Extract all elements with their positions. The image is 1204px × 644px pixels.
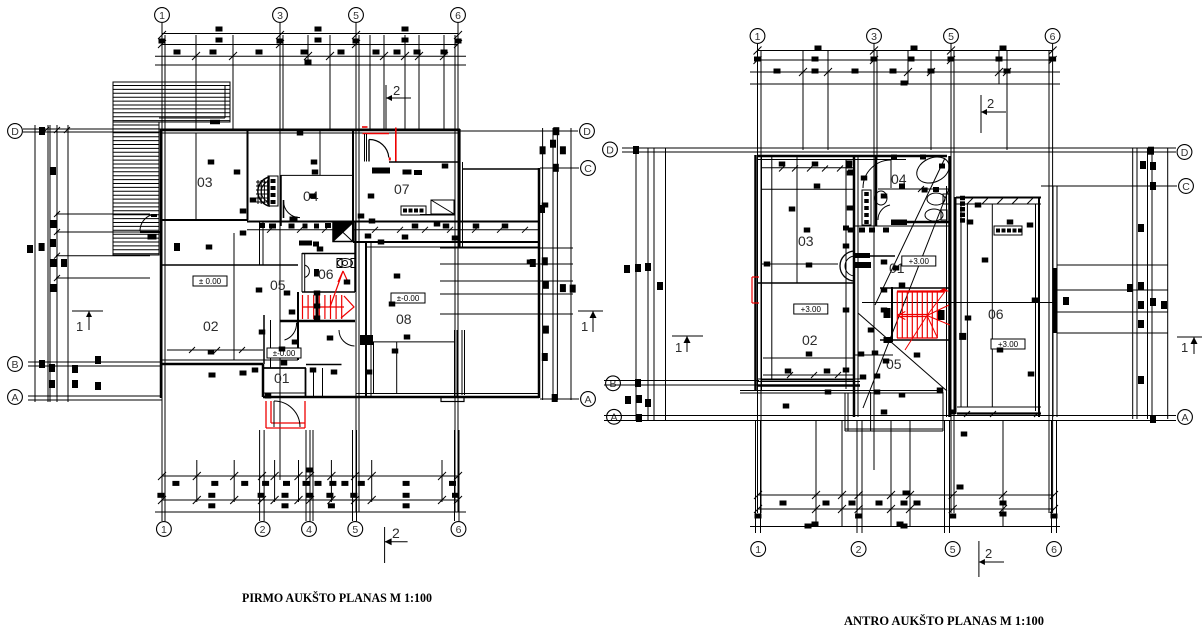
left plan: room05 left region lines — [161, 264, 298, 266]
svg-text:05: 05 — [886, 356, 902, 372]
left plan: bottom axis circle 6 — [451, 522, 466, 537]
left plan: red stairs — [303, 271, 355, 319]
left plan: top axis circle 1 — [155, 8, 170, 23]
svg-text:2: 2 — [856, 544, 862, 556]
svg-text:6: 6 — [456, 524, 462, 536]
right plan: bottom axis circle 6 — [1047, 542, 1062, 557]
left plan: vestibule wall — [389, 161, 459, 163]
left plan: vertical axis line 3 — [279, 23, 281, 480]
left plan: outer wall left — [160, 129, 163, 398]
right plan: right band vertical lines — [1132, 148, 1134, 419]
svg-text:B: B — [11, 359, 18, 371]
svg-text:4: 4 — [306, 524, 312, 536]
right plan: diagonal 3 — [858, 313, 947, 391]
svg-text:2: 2 — [392, 525, 400, 541]
right plan: vertical axis line 6 — [1052, 44, 1054, 513]
right plan: door jamb blocks — [854, 253, 870, 258]
left plan: hall-08 door blocks — [360, 335, 373, 345]
right plan: top axis circle 6 — [1045, 29, 1060, 44]
left plan: kitchen unit room07 — [401, 206, 426, 215]
left plan: left band horizontal dim lines — [56, 213, 150, 215]
left plan: wall room04/07 — [352, 130, 354, 242]
right plan: room03 top band ticks — [779, 166, 785, 172]
right plan: axis circle D left — [603, 142, 618, 157]
right plan: top dimension band lines — [757, 50, 1053, 52]
left plan: axis C line + circle — [540, 167, 579, 169]
right plan: stairs box bottom wall — [880, 339, 950, 341]
left plan: room08 inner verticals — [454, 330, 456, 397]
right plan: bottom band verticals — [755, 421, 757, 533]
left plan: door arc hall-08 — [339, 330, 355, 346]
svg-text:1: 1 — [755, 544, 761, 556]
left plan: room02 dim line — [167, 349, 263, 351]
left plan: red door opening top — [362, 126, 368, 128]
left plan: hall bottom wall — [306, 364, 342, 366]
svg-text:1: 1 — [755, 31, 761, 43]
svg-text:2: 2 — [987, 96, 994, 111]
left plan: canopy hatch wide part — [113, 82, 230, 122]
left plan: bottom axis circle 2 — [255, 522, 270, 537]
left plan: room07 inner wall bottom — [353, 241, 540, 243]
left plan: elevation box 2 — [391, 293, 425, 303]
svg-text:02: 02 — [203, 318, 219, 334]
svg-text:ANTRO AUKŠTO PLANAS M 1:100: ANTRO AUKŠTO PLANAS M 1:100 — [844, 613, 1044, 628]
right plan: axis B line — [604, 380, 759, 382]
left plan: right dimension band vertical lines — [542, 128, 544, 400]
svg-text:1: 1 — [1181, 340, 1188, 355]
left plan: outer wall C segment — [462, 168, 540, 170]
left plan: top dimension band lines — [162, 33, 458, 35]
svg-text:+3.00: +3.00 — [909, 257, 930, 266]
right plan: top band squares — [815, 46, 822, 51]
right plan: inner block lines left — [762, 167, 854, 169]
svg-text:07: 07 — [394, 181, 410, 197]
left plan: room08 left wall — [365, 242, 367, 397]
left plan: fireplace half circle — [258, 177, 269, 206]
svg-text:+3.00: +3.00 — [801, 305, 822, 314]
left plan: top band section squares — [216, 27, 223, 32]
left plan: vertical axis line 6 — [457, 23, 459, 512]
svg-text:01: 01 — [274, 370, 290, 386]
svg-text:D: D — [583, 126, 591, 138]
left plan: bottom axis circle 1 — [157, 522, 172, 537]
svg-text:6: 6 — [455, 10, 461, 22]
svg-text:06: 06 — [988, 306, 1004, 322]
svg-text:3: 3 — [277, 10, 283, 22]
right plan: bath tub — [913, 152, 954, 188]
right plan: bottom band squares — [780, 501, 787, 506]
left plan: entry sill blocks — [372, 168, 390, 174]
left plan: corridor second line — [247, 229, 540, 231]
right plan: room02 bottom dim lines — [763, 357, 855, 359]
right plan: room03 dim line — [762, 263, 838, 265]
right plan: stairs mid landing line — [862, 302, 1057, 304]
left plan: vertical axis line 1 — [161, 23, 163, 512]
svg-text:D: D — [606, 144, 614, 156]
left plan: bottom dimension band — [162, 475, 458, 477]
left plan: terrace door — [151, 214, 157, 217]
svg-text:03: 03 — [197, 174, 213, 190]
right plan: elevation box 1 — [902, 256, 936, 266]
right plan: wing 06 top ticks — [967, 198, 973, 204]
svg-text:1: 1 — [159, 10, 165, 22]
right plan: axis C line right — [1041, 185, 1177, 187]
left plan: bottom axis circle 4 — [302, 522, 317, 537]
svg-text:B: B — [609, 378, 616, 390]
svg-text:A: A — [11, 392, 18, 404]
left plan: section mark 2 bottom — [384, 527, 386, 563]
left plan: room07 lower wall — [420, 214, 455, 216]
left plan: secondary vertical grid lines — [195, 35, 197, 130]
right plan: wing 06 inner verticals — [991, 204, 993, 407]
svg-text:D: D — [11, 126, 19, 138]
left plan: black entry door — [364, 134, 366, 162]
right plan: inner vertical room03 — [845, 160, 847, 389]
left plan: axis D line right + circle — [460, 130, 578, 132]
svg-text:2: 2 — [393, 83, 400, 98]
svg-text:1: 1 — [76, 319, 83, 334]
left plan: outer wall top-right segment — [458, 129, 460, 247]
left plan: canopy hatch narrow part — [113, 122, 159, 255]
right plan: top band ticks — [799, 68, 807, 76]
left plan: wall x281 — [280, 175, 282, 226]
left plan: canopy square mark — [210, 120, 220, 125]
svg-text:6: 6 — [1051, 544, 1057, 556]
right plan: axis circle A right — [1178, 410, 1193, 425]
left plan: room08 inner lines — [370, 242, 372, 397]
left plan: A wall inner line — [356, 393, 539, 395]
left plan: outer wall right — [538, 168, 541, 398]
svg-text:1: 1 — [675, 340, 682, 355]
right plan: right band dim lines — [1057, 264, 1168, 266]
right plan: porch inner vertical — [870, 392, 872, 431]
left plan: bottom band verticals — [161, 430, 163, 521]
right plan: toilet 1 — [927, 193, 945, 205]
svg-text:C: C — [584, 163, 592, 175]
svg-text:5: 5 — [352, 524, 358, 536]
left plan: A wall step — [441, 397, 464, 402]
left plan: wc fixtures — [305, 265, 310, 278]
left plan: square near terrace door — [148, 235, 157, 240]
right plan: axis circle B left — [606, 376, 621, 391]
right plan: bathroom squares — [899, 184, 905, 189]
right plan: section mark 2 top — [980, 95, 982, 133]
svg-text:02: 02 — [802, 332, 818, 348]
left plan: corridor dim ticks — [267, 227, 273, 233]
left plan: axis circle B left — [8, 357, 23, 372]
right plan: top axis circle 3 — [867, 29, 882, 44]
svg-text:08: 08 — [396, 311, 412, 327]
left plan: stairs box walls — [280, 320, 355, 323]
right plan: bottom axis circle 1 — [751, 542, 766, 557]
right plan: red balcony door left — [752, 276, 759, 278]
left plan: vertical axis line 5 — [355, 23, 357, 512]
right plan: door arc mid — [878, 205, 890, 220]
left plan: shaft diamond — [333, 223, 353, 242]
left plan: wall room04 left — [319, 130, 321, 175]
right plan: top axis circle 1 — [750, 29, 765, 44]
right plan: red stairs — [897, 288, 950, 350]
right plan: axis A line — [604, 415, 1176, 417]
right plan: axis circle D right — [1177, 145, 1192, 160]
left plan: wall room03 right — [247, 130, 249, 220]
left plan: bottom band ticks — [158, 472, 166, 480]
left plan: section mark 1 right — [578, 310, 603, 312]
left plan: door arc stairs-01 — [285, 323, 297, 340]
left plan: outer wall step — [262, 364, 265, 397]
right plan: wing06 shelf column — [960, 196, 965, 201]
right plan: room05 wall — [891, 287, 893, 342]
left plan: outer wall bottom A segment — [263, 396, 539, 399]
left plan: wall above porch — [264, 392, 306, 394]
left plan: fireplace column squares — [268, 176, 278, 206]
right plan: interior squares — [779, 162, 786, 167]
svg-text:2: 2 — [260, 524, 266, 536]
left plan: red porch — [266, 401, 305, 428]
right plan: bathroom door sill — [891, 220, 907, 226]
right plan: bottom dimension band — [758, 494, 1054, 496]
right plan: kitchen unit — [994, 226, 1022, 235]
svg-text:±-0.00: ±-0.00 — [397, 294, 420, 303]
left plan: section mark 1 left — [72, 310, 103, 312]
left plan: bottom band squares — [172, 481, 179, 486]
right plan: wing 06 left wall — [955, 197, 957, 414]
right plan: elevation box 2 — [794, 304, 828, 314]
left plan: axis circle A left — [8, 390, 23, 405]
right plan: toilet 2 — [925, 209, 943, 221]
right plan: wing 06 bottom wall — [957, 406, 1041, 408]
right plan: section mark 1 left — [672, 335, 703, 337]
left plan: right band dim lines — [440, 247, 573, 249]
right plan: section mark 1 right — [1177, 336, 1202, 338]
left plan: door sill 06 — [299, 241, 312, 246]
left plan: top axis circle 6 — [451, 8, 466, 23]
right plan: axis circle A left — [607, 409, 622, 424]
left plan: elevation box 1 — [193, 276, 227, 286]
right plan: secondary vertical grid lines top — [802, 50, 804, 150]
left plan: axis A right circle — [540, 398, 579, 400]
left plan: outer wall top — [160, 129, 460, 132]
right plan: wing 06 right wall — [1038, 197, 1040, 417]
left plan: elevation box 3 — [267, 348, 301, 358]
right plan: bathroom dim line — [878, 188, 950, 190]
left plan: room06 box — [301, 253, 303, 292]
svg-text:± 0.00: ± 0.00 — [199, 277, 222, 286]
left plan: room07 corner door — [431, 200, 454, 214]
left plan: axis circle D left — [8, 124, 23, 139]
svg-text:A: A — [610, 412, 617, 424]
left plan: corridor door frame — [259, 222, 261, 266]
right plan: balcony wall thick — [1054, 268, 1058, 333]
right plan: bathroom left wall — [875, 156, 878, 226]
left plan: bottom axis circle 5 — [348, 522, 363, 537]
right plan: room01 mid wall — [854, 255, 895, 257]
left plan: right band squares — [550, 140, 556, 148]
left plan: canopy inner edge lines — [224, 85, 226, 118]
right plan: vertical axis line 1 — [757, 44, 759, 513]
left plan: outer wall bottom B segment — [160, 363, 263, 366]
svg-text:2: 2 — [985, 546, 992, 561]
left plan: left band squares — [39, 127, 45, 135]
left plan: wall room03 bottom — [161, 219, 248, 221]
right plan: stairs box top wall — [880, 287, 950, 289]
left plan: room04 dim line — [281, 174, 352, 176]
right plan: elevation box 3 — [991, 339, 1025, 349]
right plan: balcony edge verticals — [1052, 186, 1054, 417]
right plan: bottom axis circle 5 — [945, 542, 960, 557]
right plan: axis circle C right — [1179, 179, 1194, 194]
right plan: diagonal section line — [863, 186, 950, 408]
right plan: bottom band ticks — [754, 491, 762, 499]
svg-text:6: 6 — [1050, 31, 1056, 43]
right plan: sink — [875, 191, 887, 205]
right plan: bottom axis circle 2 — [851, 542, 866, 557]
left plan: interior squares — [208, 160, 215, 165]
left plan: axis D line — [23, 128, 460, 130]
left plan: room01 walls — [263, 315, 265, 364]
right plan: vertical axis line 5 — [950, 44, 952, 513]
left plan: axis A line left — [28, 395, 162, 397]
right plan: outer wall left — [754, 155, 757, 390]
right plan: shower semicircle — [840, 251, 855, 281]
svg-text:1: 1 — [581, 319, 588, 334]
right plan: left band vertical lines — [635, 148, 637, 421]
svg-text:1: 1 — [161, 524, 167, 536]
right plan: middle column right wall — [948, 156, 951, 417]
svg-text:C: C — [1182, 181, 1190, 193]
left plan: porch door arc — [274, 401, 300, 427]
right plan: right band squares — [1148, 147, 1154, 155]
svg-text:PIRMO AUKŠTO PLANAS M 1:100: PIRMO AUKŠTO PLANAS M 1:100 — [242, 590, 432, 605]
left plan: corridor door blobs — [259, 223, 265, 228]
svg-text:3: 3 — [871, 31, 877, 43]
left plan: axis B line — [28, 361, 162, 363]
svg-text:5: 5 — [353, 10, 359, 22]
left plan: left dimension band vertical lines — [34, 125, 36, 402]
right plan: section mark 2 bottom — [978, 541, 980, 577]
svg-text:03: 03 — [798, 233, 814, 249]
left plan: section mark 2 top — [385, 85, 387, 129]
left plan: top band ticks — [192, 52, 200, 60]
right plan: top axis circle 5 — [944, 29, 959, 44]
svg-text:05: 05 — [270, 277, 286, 293]
right plan: outer wall bottom 02 — [758, 381, 860, 383]
svg-text:A: A — [584, 394, 591, 406]
right plan: stairs squares — [884, 308, 891, 318]
left plan: room01 door frame — [313, 368, 315, 398]
right plan: wing 06 top wall — [956, 197, 1041, 199]
svg-text:06: 06 — [318, 266, 334, 282]
svg-text:A: A — [1181, 412, 1188, 424]
left plan: room08 inner box — [396, 342, 398, 394]
right plan: left band squares — [633, 146, 639, 154]
right plan: door arc 04 — [863, 160, 891, 188]
right plan: porch below — [844, 393, 846, 431]
svg-text:D: D — [1181, 147, 1189, 159]
right plan: bathroom bottom wall — [891, 221, 950, 224]
left plan: thin verticals rooms — [233, 233, 235, 360]
left plan: top axis circle 5 — [349, 8, 364, 23]
svg-text:5: 5 — [948, 31, 954, 43]
left plan: top axis circle 3 — [273, 8, 288, 23]
svg-text:5: 5 — [950, 544, 956, 556]
right plan: middle column left wall — [853, 156, 856, 417]
right plan: outer wall top — [758, 155, 947, 158]
right plan: room03 inner vertical — [796, 157, 798, 283]
left plan: corridor top wall — [247, 221, 540, 223]
right plan: wall 03/02 divider — [758, 282, 854, 284]
left plan: door arc room04 — [283, 200, 285, 218]
right plan: axis D line — [622, 147, 1176, 149]
right plan: heater column — [862, 190, 871, 225]
left plan: room02 bottom wall — [161, 359, 298, 361]
right plan: vertical axis line 3 — [873, 44, 875, 470]
